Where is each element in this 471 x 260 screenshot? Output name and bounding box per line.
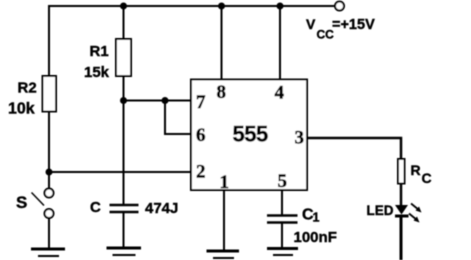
svg-text:555: 555 [233, 122, 268, 147]
svg-text:474J: 474J [145, 200, 178, 217]
svg-text:3: 3 [295, 128, 305, 149]
svg-text:1: 1 [313, 211, 320, 225]
svg-text:C: C [90, 199, 101, 216]
svg-text:R2: R2 [18, 80, 37, 97]
svg-text:8: 8 [217, 82, 227, 103]
svg-text:R1: R1 [90, 43, 109, 60]
svg-text:V: V [306, 16, 316, 32]
svg-text:=+15V: =+15V [332, 17, 375, 33]
svg-text:15k: 15k [84, 64, 110, 81]
svg-text:2: 2 [196, 162, 206, 183]
svg-text:4: 4 [275, 83, 285, 104]
svg-text:LED: LED [367, 203, 394, 218]
svg-text:7: 7 [196, 92, 206, 113]
svg-text:R: R [411, 162, 421, 178]
svg-text:100nF: 100nF [294, 229, 337, 246]
svg-text:1: 1 [220, 172, 230, 193]
svg-text:6: 6 [196, 125, 206, 146]
svg-text:5: 5 [278, 171, 288, 192]
svg-text:S: S [16, 193, 27, 212]
svg-text:10k: 10k [8, 101, 35, 118]
svg-text:C: C [422, 170, 432, 186]
